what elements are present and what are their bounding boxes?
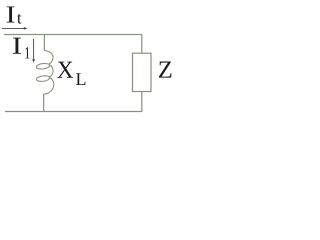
wire left branch bottom [43, 94, 45, 111]
label Z (impedance) [159, 62, 171, 78]
wire right branch top [141, 35, 143, 54]
label It subscript t [17, 14, 21, 24]
wire bottom [5, 111, 142, 113]
arrow It (current direction, pointing right) [2, 27, 27, 30]
label I1 (inductor branch current), letter I [13, 38, 21, 54]
wire right branch bottom [141, 92, 143, 112]
wire left branch top [43, 35, 45, 51]
label XL (inductive reactance), letter X [57, 62, 73, 78]
impedance box Z [133, 53, 152, 91]
wire top [4, 34, 142, 36]
label I1 subscript 1 [25, 47, 29, 58]
arrow I1 (current direction, pointing down) [32, 39, 35, 63]
label It (total current), letter I [7, 6, 15, 22]
inductor XL coil [36, 50, 54, 94]
label XL subscript L [76, 73, 85, 85]
